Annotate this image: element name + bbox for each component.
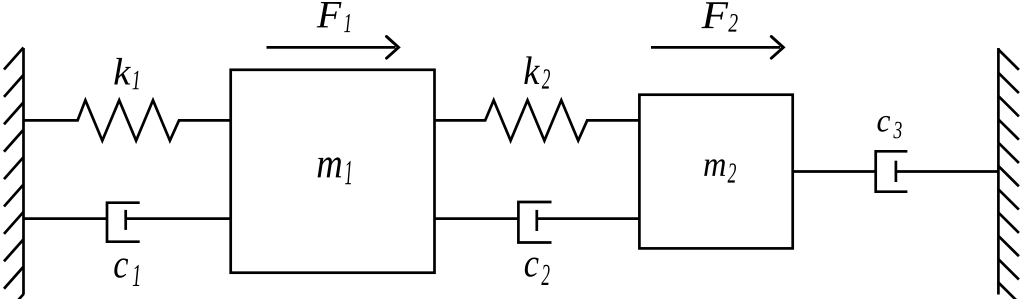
force F1 arrow shaft xyxy=(267,46,396,49)
force F2 arrowhead xyxy=(771,37,783,59)
spring k2 xyxy=(435,100,640,140)
damper c3 piston xyxy=(895,161,898,182)
spring k2 label: k xyxy=(524,56,540,84)
mass m2 box xyxy=(639,95,792,249)
damper c2 rod to m2 xyxy=(537,217,640,220)
damper c1 rod to m1 xyxy=(126,217,231,220)
damper c3 label: c xyxy=(878,116,891,132)
damper c3 rod to right wall xyxy=(896,170,999,173)
right wall hatching xyxy=(998,50,1019,299)
damper c1 rod from wall xyxy=(24,217,108,220)
damper c2 cylinder xyxy=(518,202,551,243)
damper c2 label: c xyxy=(525,258,539,277)
damper c1 piston xyxy=(124,210,127,230)
left wall hatching xyxy=(4,48,24,299)
mass m1 label: m xyxy=(318,157,342,177)
m1 subscript 1 xyxy=(345,161,351,184)
mass m1 box xyxy=(231,70,435,273)
F1 subscript 1 xyxy=(344,14,350,32)
force F2 label: F xyxy=(701,2,728,28)
force F1 label: F xyxy=(317,2,342,27)
right wall line xyxy=(997,48,1000,295)
c3 subscript 3 xyxy=(893,122,901,139)
damper c3 rod from m2 xyxy=(793,170,876,173)
spring k1 xyxy=(24,100,231,140)
damper c1 cylinder xyxy=(107,203,140,242)
damper c3 cylinder xyxy=(876,151,908,191)
mass m2 label: m xyxy=(704,159,725,176)
m2 subscript 2 xyxy=(728,163,736,182)
force F1 arrowhead xyxy=(387,37,399,59)
k2 subscript 2 xyxy=(542,69,550,88)
damper c2 rod from m1 xyxy=(435,217,519,220)
force F2 arrow shaft xyxy=(651,46,780,49)
c2 subscript 2 xyxy=(541,265,549,285)
F2 subscript 2 xyxy=(728,14,737,32)
spring k1 label: k xyxy=(114,58,131,85)
damper c2 piston xyxy=(535,210,538,231)
damper c1 label: c xyxy=(114,258,128,277)
c1 subscript 1 xyxy=(133,265,139,286)
k1 subscript 1 xyxy=(132,71,138,89)
left wall line xyxy=(22,48,25,295)
